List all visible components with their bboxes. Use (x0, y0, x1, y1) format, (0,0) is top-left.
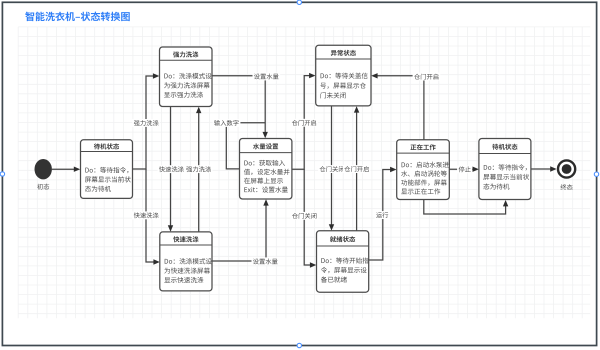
state 待机状态 (右) (479, 139, 531, 200)
state 快速洗涤 (160, 232, 212, 291)
background grid (18, 27, 590, 318)
wire: 快速洗涤→水量设置 (212, 199, 269, 261)
selection handle bottom (297, 343, 301, 347)
wire: 待机状态→快速洗涤 (via x=145) (146, 169, 160, 265)
state 待机状态 (左) (81, 140, 133, 199)
state 异常状态 (316, 45, 371, 106)
wire: 正在工作→异常状态 (仓门开启) (371, 73, 424, 140)
label 输入数字 (水量 self) (213, 119, 241, 127)
start node 初态 (35, 159, 52, 190)
label 设置水量 (强力→水量) (253, 73, 281, 81)
wire: 就绪状态→正在工作 (运行) (369, 167, 397, 260)
state 正在工作 (397, 140, 450, 200)
wire: 待机状态→终态 (531, 166, 556, 171)
wire: 快速洗涤→强力洗涤 (196, 107, 201, 232)
label 仓门开启 (就绪→异常) (343, 165, 371, 173)
state 水量设置 (240, 139, 292, 200)
label 强力洗涤 (快速→强力) (185, 165, 213, 173)
wire: 水量设置→异常状态 (仓门开启) (292, 73, 316, 169)
selection handle top (297, 0, 301, 4)
diagram title 智能洗衣机–状态转换图 (25, 12, 129, 22)
wire: 初态→待机状态 (52, 167, 80, 172)
label 仓门关闭 (水量→就绪) (291, 212, 319, 220)
wire: 强力洗涤→快速洗涤 (168, 107, 173, 232)
wire: 强力洗涤→水量设置 (212, 76, 268, 139)
wire: 水量设置 self-loop 输入数字 (226, 123, 265, 169)
label 仓门开启 (正在工作→异常) (413, 73, 441, 81)
label 强力洗涤 (待机→强力) (132, 119, 160, 127)
label 设置水量 (快速→水量) (252, 257, 280, 265)
selection handle right (594, 172, 598, 176)
state 就绪状态 (317, 231, 369, 292)
wire: 就绪状态→异常状态 (354, 106, 359, 231)
label 仓门关闭 (异常→就绪) (318, 165, 346, 173)
wire: 正在工作→待机状态 bottom loop (424, 199, 509, 214)
wire: 异常状态→就绪状态 (329, 106, 334, 231)
wire: 正在工作→待机状态 (停止) (449, 167, 479, 172)
selection handle left (0, 172, 4, 176)
end node 终态 (558, 160, 575, 189)
label 快速洗涤 (强力→快速) (158, 165, 186, 173)
wire: 待机状态→强力洗涤 (via x=145) (133, 73, 160, 169)
wire: 水量设置→就绪状态 (仓门关闭) (304, 169, 316, 267)
state 强力洗涤 (160, 47, 213, 107)
label 仓门开启 (水量→异常) (290, 119, 318, 127)
label 快速洗涤 (待机→快速) (132, 211, 160, 219)
label 停止 (正在工作→待机) (457, 165, 472, 173)
label 运行 (就绪→正在工作) (375, 211, 390, 219)
